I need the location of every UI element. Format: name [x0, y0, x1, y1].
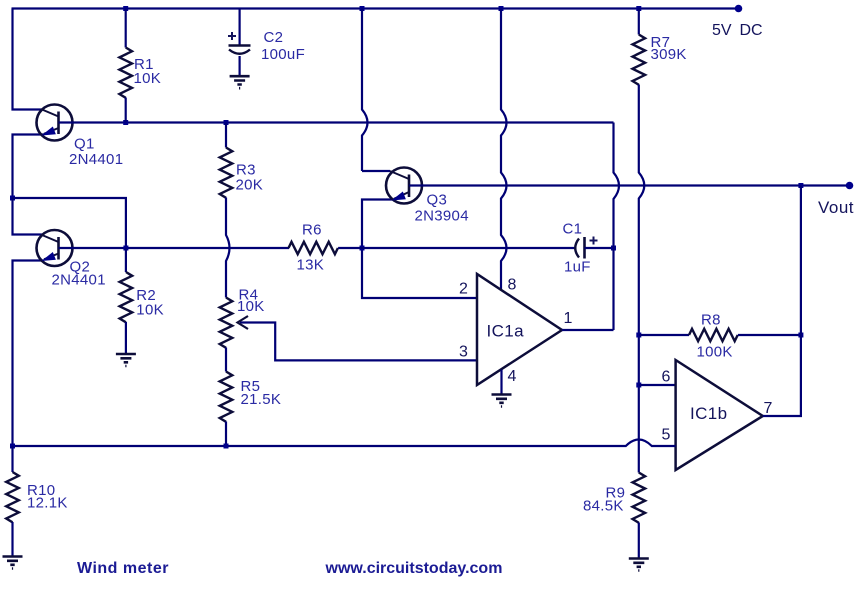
- svg-text:8: 8: [508, 277, 517, 294]
- svg-text:1uF: 1uF: [564, 258, 591, 275]
- wire pin8 column from rail with hops: [501, 9, 507, 290]
- node top rail Q3 column tap: [360, 6, 365, 11]
- label R5: [241, 378, 261, 395]
- label 2N4401: [52, 272, 106, 289]
- svg-text:C1: C1: [563, 221, 583, 238]
- wire Q1 emitter to left rail down to node: [13, 135, 45, 199]
- label Q3: [427, 192, 448, 209]
- transistor Q2 2N4401: [37, 230, 73, 266]
- svg-text:2N3904: 2N3904: [415, 208, 469, 225]
- label R3: [236, 161, 256, 178]
- label C1: [563, 221, 583, 238]
- resistor R7: [633, 35, 646, 85]
- svg-text:2: 2: [459, 281, 468, 298]
- node Vout terminal dot: [846, 182, 854, 190]
- ground C2: [230, 76, 250, 88]
- svg-text:10K: 10K: [136, 302, 164, 319]
- pin 1 label: [564, 310, 573, 327]
- node R1 bottom: [123, 120, 128, 125]
- wire R4 wiper arrow to pin3 row: [238, 316, 478, 360]
- node R2 top: [123, 246, 128, 251]
- node top rail pin8 column tap: [499, 6, 504, 11]
- node top rail R7 tap: [636, 6, 641, 11]
- wire left rail to Q2 collector: [13, 198, 43, 235]
- node top rail R1 tap: [123, 6, 128, 11]
- label 2N4401: [69, 151, 123, 168]
- svg-text:DC: DC: [740, 22, 763, 39]
- resistor R6: [289, 242, 338, 254]
- capacitor C2: [228, 9, 251, 77]
- transistor Q1 2N4401: [37, 105, 73, 141]
- node Vout tee: [798, 183, 803, 188]
- resistor R8: [639, 329, 801, 341]
- pin 7 label: [764, 400, 773, 417]
- svg-text:Q1: Q1: [74, 135, 95, 152]
- label R9: [606, 485, 626, 502]
- label R2: [136, 287, 156, 304]
- wire feedback column up with hop: [614, 123, 620, 331]
- label C2: [264, 29, 284, 46]
- op-amp IC1b: [676, 360, 763, 470]
- svg-text:84.5K: 84.5K: [583, 498, 624, 515]
- svg-text:10K: 10K: [237, 298, 265, 315]
- wire bottom rail with hop to pin5: [13, 440, 676, 447]
- svg-text:3: 3: [459, 344, 468, 361]
- svg-text:Q3: Q3: [427, 192, 448, 209]
- resistor R1: [119, 9, 132, 123]
- label IC1b: [690, 404, 728, 423]
- wire pin6 stub: [639, 384, 676, 386]
- label R4: [239, 287, 259, 304]
- wire R4 to R5: [225, 348, 227, 372]
- pin 6 label: [662, 369, 671, 386]
- svg-text:7: 7: [764, 400, 773, 417]
- svg-text:1: 1: [564, 310, 573, 327]
- wire Q3 emitter down to node and pin2: [362, 200, 477, 299]
- label 10K: [134, 70, 162, 87]
- label Q2: [70, 259, 91, 276]
- svg-text:IC1a: IC1a: [487, 322, 525, 341]
- label Vout: [818, 198, 854, 217]
- pin 3 label: [459, 344, 468, 361]
- label R1: [134, 56, 154, 73]
- wire Q2 emitter to left rail down to bottom rail: [13, 261, 45, 447]
- svg-text:Wind meter: Wind meter: [77, 560, 169, 577]
- resistor R5: [220, 372, 233, 447]
- wire Q3 collector column from rail: [362, 9, 368, 172]
- resistor R9: [633, 473, 646, 559]
- node C1 output junction: [611, 246, 616, 251]
- wire node row to R2 column: [13, 198, 126, 248]
- wire base row R6 to C1: [338, 247, 575, 249]
- svg-text:2N4401: 2N4401: [69, 151, 123, 168]
- label 20K: [236, 177, 264, 194]
- label 12.1K: [27, 495, 68, 512]
- label R7: [651, 34, 671, 51]
- wire Q1 base row to feedback corner: [59, 121, 614, 123]
- label 21.5K: [241, 391, 282, 408]
- wire IC1a output to feedback column: [562, 329, 614, 331]
- pin 5 label: [662, 427, 671, 444]
- wire R7 down with hop over Vout row: [639, 85, 645, 473]
- svg-text:2N4401: 2N4401: [52, 272, 106, 289]
- label Wind meter: [77, 560, 169, 577]
- resistor R2: [120, 248, 133, 354]
- label R8: [701, 312, 721, 329]
- node R5 bottom: [224, 444, 229, 449]
- wire top +5V rail: [12, 7, 742, 9]
- resistor R10: [6, 446, 19, 556]
- svg-text:4: 4: [508, 368, 517, 385]
- label 13K: [297, 257, 325, 274]
- wire Q3 collector stub: [362, 170, 390, 172]
- ground R10: [3, 557, 23, 569]
- ground IC1a pin4: [492, 395, 512, 407]
- label 100K: [697, 344, 733, 361]
- label 84.5K: [583, 498, 624, 515]
- wire left rail down to Q1 collector: [13, 9, 43, 110]
- node 5V DC terminal dot: [735, 5, 743, 13]
- wire pin 4 stub: [500, 370, 502, 395]
- wire R3 bottom hop over base row to R4: [226, 198, 230, 298]
- svg-text:R6: R6: [302, 222, 322, 239]
- wire R7 column from rail: [638, 9, 640, 35]
- pin 4 label: [508, 368, 517, 385]
- pin 8 label: [508, 277, 517, 294]
- svg-text:R8: R8: [701, 312, 721, 329]
- node pin6 tee: [636, 383, 641, 388]
- label www.circuitstoday.com: [325, 560, 503, 577]
- node R8 left: [636, 333, 641, 338]
- svg-text:5: 5: [662, 427, 671, 444]
- wire IC1b output up to Vout: [763, 186, 801, 417]
- resistor R3: [220, 123, 233, 198]
- wire Q2 base row left part: [59, 247, 290, 249]
- svg-text:100uF: 100uF: [261, 46, 305, 63]
- node Q3 emitter row: [360, 246, 365, 251]
- label 10K: [136, 302, 164, 319]
- label IC1a: [487, 322, 525, 341]
- label 10K: [237, 298, 265, 315]
- capacitor C1: [575, 237, 612, 259]
- svg-text:309K: 309K: [651, 46, 687, 63]
- node R3 top: [224, 120, 229, 125]
- svg-text:6: 6: [662, 369, 671, 386]
- label 5V DC: [712, 22, 763, 39]
- label 100uF: [261, 46, 305, 63]
- node Q1 emitter / Q2 junction: [10, 196, 15, 201]
- svg-text:12.1K: 12.1K: [27, 495, 68, 512]
- svg-text:100K: 100K: [697, 344, 733, 361]
- label 2N3904: [415, 208, 469, 225]
- ground R9: [629, 559, 649, 571]
- svg-text:Vout: Vout: [818, 198, 854, 217]
- label 1uF: [564, 258, 591, 275]
- svg-text:IC1b: IC1b: [690, 404, 728, 423]
- svg-text:www.circuitstoday.com: www.circuitstoday.com: [325, 560, 503, 577]
- label 309K: [651, 46, 687, 63]
- resistor R4 trimpot: [220, 298, 233, 348]
- label Q1: [74, 135, 95, 152]
- svg-text:20K: 20K: [236, 177, 264, 194]
- svg-text:5V: 5V: [712, 22, 732, 39]
- node bottom rail left: [10, 444, 15, 449]
- op-amp IC1a: [477, 274, 562, 385]
- svg-text:10K: 10K: [134, 70, 162, 87]
- label R6: [302, 222, 322, 239]
- node R8 right: [798, 333, 803, 338]
- transistor Q3 2N3904: [386, 168, 422, 204]
- wire Vout row from Q3 base: [409, 184, 850, 186]
- pin 2 label: [459, 281, 468, 298]
- svg-text:C2: C2: [264, 29, 284, 46]
- ground R2: [116, 354, 136, 366]
- svg-text:21.5K: 21.5K: [241, 391, 282, 408]
- svg-text:13K: 13K: [297, 257, 325, 274]
- label R10: [27, 482, 55, 499]
